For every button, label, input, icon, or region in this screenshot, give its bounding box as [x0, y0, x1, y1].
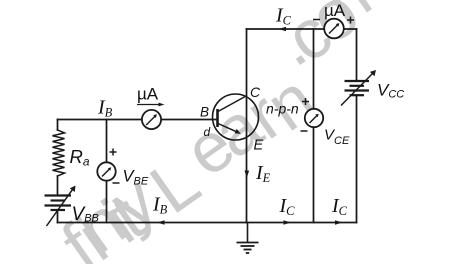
- svg-text:n-p-n: n-p-n: [266, 101, 299, 117]
- svg-text:B: B: [200, 105, 209, 120]
- svg-text:µA: µA: [324, 1, 346, 20]
- svg-text:d: d: [204, 125, 211, 139]
- svg-text:C: C: [250, 84, 261, 100]
- svg-text:µA: µA: [137, 85, 159, 104]
- svg-text:E: E: [254, 138, 264, 154]
